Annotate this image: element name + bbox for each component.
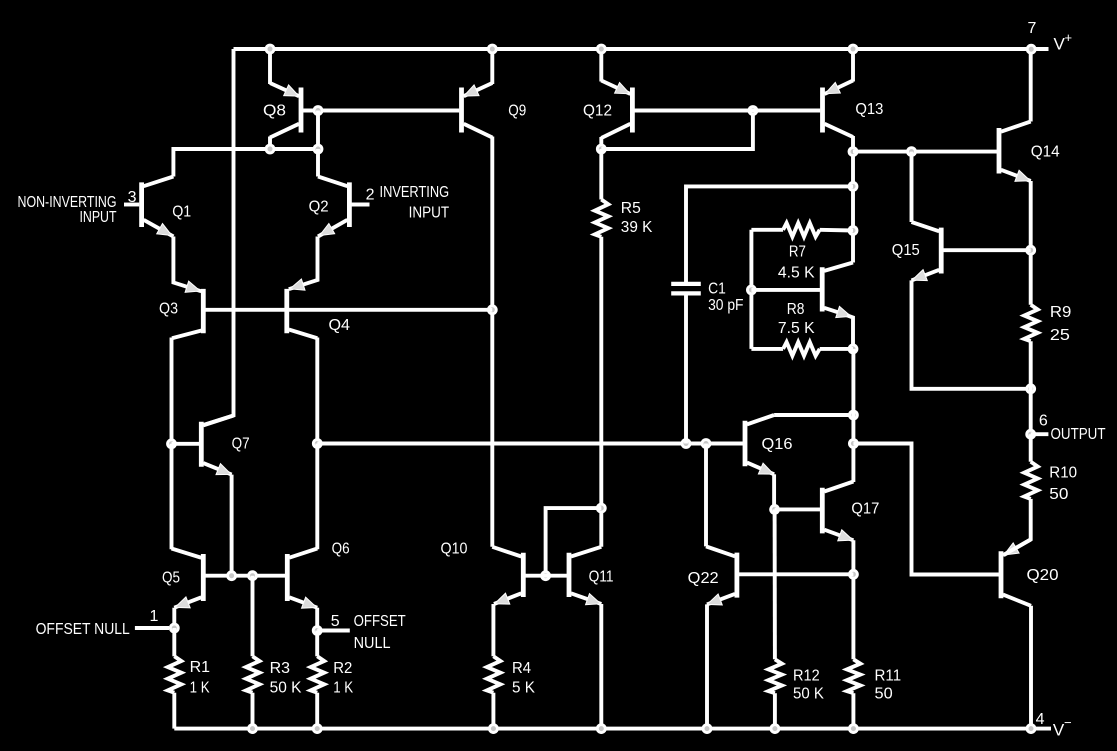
transistor Q17 (NPN) [820, 488, 825, 534]
resistor R2 [311, 656, 325, 692]
wire Q1 emitter to Q3 emitter [173, 237, 201, 292]
svg-text:50: 50 [875, 686, 893, 703]
svg-text:30 pF: 30 pF [708, 297, 744, 314]
wire Q20 base from bus (x853 y443.5 jog) [853, 444, 999, 575]
node Q3/Q5 collector and Q7 base [166, 438, 177, 449]
svg-text:6: 6 [1039, 413, 1048, 430]
wire R3 top lead [251, 576, 255, 657]
svg-text:Q15: Q15 [892, 242, 920, 259]
svg-text:R9: R9 [1050, 304, 1072, 321]
svg-text:R5: R5 [621, 200, 641, 217]
wire Q11 emitter to V- rail [599, 604, 603, 729]
svg-text:OUTPUT: OUTPUT [1051, 426, 1106, 443]
svg-text:4: 4 [1036, 711, 1045, 728]
wire Q12 collector-base tie jog [601, 111, 753, 150]
node base tie to collector bus (x318) [313, 105, 324, 116]
node Q11 emitter at V- rail [596, 723, 607, 734]
node Q9 emitter at V+ rail [487, 44, 498, 55]
pin 3 lead (non-inverting input) [124, 203, 139, 207]
svg-text:Q7: Q7 [232, 435, 250, 452]
wire Q5 collector up to Q3 collector node [170, 444, 174, 550]
wire Q13 collector bus lower section [851, 349, 855, 482]
wire Q9 collector down to Q3/Q4 base node and Q10 [490, 137, 494, 547]
wire Q2 emitter to Q4 emitter [289, 237, 318, 290]
wire R5 to Q11 collector [599, 237, 603, 547]
resistor R8 [751, 347, 783, 351]
resistor R4 [487, 656, 501, 692]
node Q12/Q13 base tie [748, 105, 759, 116]
wire Q22 base line [739, 572, 854, 576]
node Q10/Q11 base line junction [540, 570, 551, 581]
svg-text:R10: R10 [1049, 465, 1077, 482]
node R12 at V- rail [770, 723, 781, 734]
transistor Q16 (NPN, Darlington driver) [743, 421, 748, 467]
svg-text:Q17: Q17 [851, 501, 879, 518]
svg-text:R12: R12 [793, 667, 820, 684]
svg-text:R8: R8 [787, 301, 805, 318]
wire Q5/Q6 base line [205, 574, 285, 578]
wire Q17 base lead [775, 507, 821, 511]
svg-text:Q8: Q8 [263, 102, 286, 119]
resistor R9 [1024, 305, 1038, 341]
node Q12 collector / R5 / base-tie junction [596, 144, 607, 155]
wire output node to R10 [1029, 434, 1033, 462]
svg-text:Q3: Q3 [159, 301, 178, 318]
node R2 at V- rail [312, 723, 323, 734]
node Q15 base tap [1025, 245, 1036, 256]
transistor Q11 (NPN) [567, 553, 572, 597]
svg-text:7.5 K: 7.5 K [778, 320, 815, 337]
resistor R1 [168, 656, 182, 692]
svg-text:OFFSET NULL: OFFSET NULL [36, 621, 130, 638]
node Q2 collector junction [313, 144, 324, 155]
node Q4/Q6 collector at signal bus [312, 438, 323, 449]
wire R4 to V- rail [491, 693, 495, 729]
wire Q14 collector to V+ pin 7 [1029, 49, 1033, 122]
svg-text:5: 5 [331, 613, 340, 630]
node R7 right end [848, 225, 859, 236]
wire Q13 collector to Q14 base [853, 150, 997, 154]
node R8 right end [848, 344, 859, 355]
wire VBE multiplier emitter to R8 node [847, 315, 853, 349]
transistor Q20 (PNP output low-side) [999, 551, 1004, 598]
svg-text:Q22: Q22 [688, 570, 719, 587]
transistor Q8 (PNP, current mirror master) [299, 88, 304, 133]
node Q11 collector-base tie [596, 503, 607, 514]
wire Q8 emitter to V+ rail [268, 49, 272, 84]
svg-text:Q20: Q20 [1027, 567, 1059, 584]
wire Q15 emitter to output node [912, 280, 1031, 388]
node offset null pin 5 junction [312, 625, 323, 636]
transistor Q15 (NPN current limit, mirrored) [939, 228, 944, 274]
svg-text:R7: R7 [789, 244, 806, 261]
wire R1 to V- rail [172, 693, 176, 729]
resistor R12 [768, 659, 782, 693]
wire Q4/Q6 collector bus to Q16 base [317, 442, 743, 446]
svg-text:Q5: Q5 [162, 570, 180, 587]
wire Q11 base tie jog [546, 508, 602, 576]
wire R5 top lead [599, 149, 603, 200]
node R3 tap at base line [247, 570, 258, 581]
node pin 7 (V+) [1026, 44, 1037, 55]
transistor Q3 (PNP, mirrored) [201, 289, 206, 333]
svg-text:+: + [1065, 30, 1073, 45]
pin 5 lead (offset null) [317, 629, 350, 633]
wire Q22 emitter to V- rail [705, 604, 709, 728]
svg-text:3: 3 [128, 189, 137, 206]
wire R12 top lead [773, 509, 777, 659]
svg-text:Q12: Q12 [583, 102, 612, 119]
wire Q9 emitter to V+ rail [490, 49, 494, 84]
wire R9 to output node [1029, 341, 1033, 434]
node C1 bottom at bus [681, 438, 692, 449]
wire offset null 1 node to R1 [172, 628, 176, 656]
wire VBE multiplier base lead [751, 288, 820, 292]
wire Q2 collector drop [316, 149, 320, 177]
svg-text:C1: C1 [708, 281, 726, 298]
svg-text:Q11: Q11 [589, 568, 614, 585]
transistor VBE multiplier (unlabeled NPN between R7 and R8) [820, 267, 825, 311]
svg-text:R4: R4 [512, 660, 531, 677]
svg-text:Q14: Q14 [1031, 143, 1060, 160]
wire Q10 emitter to R4 [491, 604, 495, 656]
wire Q8 collector down to input-collector bus [268, 137, 272, 150]
node C1 top tap [848, 181, 859, 192]
node Q22 base at Q17 emitter line [848, 569, 859, 580]
wire Q22 collector up to signal bus [704, 444, 708, 547]
wire Q13 collector bus (x853 vertical) [851, 136, 855, 263]
svg-text:INPUT: INPUT [80, 209, 117, 226]
svg-text:Q2: Q2 [309, 199, 329, 216]
wire R12 to V- rail [773, 693, 777, 728]
svg-text:NULL: NULL [354, 635, 391, 652]
wire R3 to V- rail [251, 693, 255, 729]
wire Q14 emitter to R9 [1029, 181, 1033, 305]
wire Q12 collector to R5 node [599, 137, 603, 149]
node Q3/Q4 base line meets Q9 collector [487, 304, 498, 315]
svg-text:INPUT: INPUT [409, 204, 450, 221]
svg-text:5 K: 5 K [512, 679, 535, 696]
transistor Q12 (PNP, diode-connected) [630, 88, 635, 133]
pin 6 lead (output) [1031, 432, 1049, 436]
svg-text:Q6: Q6 [332, 540, 350, 557]
wire R10 to Q20 emitter [1004, 499, 1031, 555]
wire Q15 base to R9 top node [943, 248, 1030, 252]
resistor R11 [847, 659, 861, 693]
transistor Q13 (PNP) [820, 88, 825, 133]
svg-text:R3: R3 [270, 660, 291, 677]
pin 2 lead (inverting input) [351, 203, 369, 207]
node Q8 collector junction [265, 144, 276, 155]
wire offset null 5 node to R2 [315, 631, 319, 657]
wire V- rail (pin 4 supply, bottom) [174, 727, 1051, 731]
node pin 6 output junction [1025, 429, 1036, 440]
node Q20 base tap at bus [848, 438, 859, 449]
svg-text:OFFSET: OFFSET [354, 613, 406, 630]
transistor Q6 (NPN) [285, 554, 290, 601]
svg-text:Q1: Q1 [172, 203, 191, 220]
svg-text:50 K: 50 K [270, 679, 302, 696]
node offset null pin 1 junction [169, 623, 180, 634]
capacitor C1 30 pF [671, 282, 701, 286]
svg-text:Q13: Q13 [855, 101, 883, 118]
wire Q4 collector down to Q6 collector node [315, 338, 319, 444]
wire R11 to V- rail [851, 693, 855, 728]
wire C1 top plate to Q13 collector bus [686, 186, 853, 284]
resistor R7 [751, 228, 783, 232]
svg-text:Q10: Q10 [441, 540, 468, 557]
pin 1 lead (offset null) [135, 626, 169, 630]
node VBE multiplier base tap [746, 285, 757, 296]
wire Q20 collector to V- pin 4 [1029, 606, 1033, 729]
svg-text:R2: R2 [333, 660, 352, 677]
node R11 at V- rail [848, 723, 859, 734]
transistor Q1 (NPN input) [139, 182, 144, 227]
svg-text:1: 1 [150, 608, 159, 625]
transistor Q14 (NPN output high-side) [997, 128, 1002, 174]
wire Q15 collector up to Q14 base line [910, 152, 914, 222]
transistor Q7 (NPN, mirror buffer) [199, 422, 204, 467]
wire Q8-Q9 base line [303, 109, 459, 113]
resistor R10 [1024, 462, 1038, 499]
resistor R5 [595, 200, 609, 237]
wire Q12-Q13 base line [634, 109, 820, 113]
wire Q7 emitter to Q5/Q6 base line [230, 475, 234, 576]
wire Q13 emitter to V+ rail [851, 49, 855, 82]
node R3 at V- rail [247, 723, 258, 734]
svg-text:4.5 K: 4.5 K [778, 264, 815, 281]
svg-text:Q9: Q9 [508, 102, 526, 119]
wire R2 to V- rail [315, 693, 319, 729]
node Q17 base / R12 junction [769, 504, 780, 515]
node Q12 emitter at V+ rail [596, 44, 607, 55]
wire Q6 emitter to offset null 5 node [315, 608, 319, 631]
wire Q3/Q4 base line to Q9 collector [205, 308, 492, 312]
node Q22 collector at bus [701, 438, 712, 449]
wire Q16 emitter to Q17 base node [772, 474, 776, 509]
svg-text:2: 2 [366, 187, 375, 204]
wire Q17 emitter to Q22 base node and R11 [851, 540, 855, 659]
node Q14 base line tap [848, 146, 859, 157]
svg-text:50: 50 [1049, 486, 1068, 503]
node Q16 collector at bus [848, 410, 859, 421]
wire Q6 collector up to signal bus [315, 444, 319, 550]
svg-text:Q16: Q16 [762, 436, 793, 453]
svg-text:Q4: Q4 [329, 317, 351, 334]
svg-text:39 K: 39 K [621, 219, 653, 236]
svg-text:7: 7 [1028, 20, 1037, 37]
node Q15 collector at Q14 base line [906, 146, 917, 157]
transistor Q2 (NPN input, mirrored) [347, 182, 352, 227]
wire C1 bottom plate to Q16 base bus [684, 293, 688, 443]
wire Q3 collector down to Q5 collector / Q7 base node [170, 338, 174, 444]
transistor Q4 (PNP) [284, 289, 289, 333]
transistor Q5 (NPN, mirrored) [201, 554, 206, 601]
svg-text:R1: R1 [190, 659, 211, 676]
wire Q5 emitter to offset null 1 node [172, 608, 176, 628]
transistor Q9 (PNP, current mirror output) [459, 88, 464, 133]
wire Q10/Q11 base line [525, 574, 567, 578]
svg-text:1 K: 1 K [190, 679, 210, 696]
svg-text:1 K: 1 K [333, 679, 353, 696]
resistor R3 [246, 656, 260, 692]
svg-text:−: − [1064, 715, 1072, 730]
wire Q16 collector to Q13 collector bus [774, 413, 854, 417]
svg-text:R11: R11 [875, 667, 902, 684]
svg-text:50 K: 50 K [793, 686, 824, 703]
node Q15 emitter at output branch [1025, 383, 1036, 394]
wire Q12 emitter to V+ rail [599, 49, 603, 82]
node Q22 emitter at V- rail [702, 723, 713, 734]
node Q8 emitter at V+ rail [265, 44, 276, 55]
node R4 at V- rail [488, 723, 499, 734]
wire R7/R8 left vertical (VBE multiplier base node) [749, 230, 753, 349]
wire base tie vertical (x318) [316, 111, 320, 150]
wire V+ drop to Q7 collector (left vertical) [203, 49, 233, 425]
node Q13 emitter at V+ rail [848, 44, 859, 55]
transistor Q10 (NPN, mirrored) [521, 553, 526, 597]
wire Q7 base lead [172, 442, 200, 446]
transistor Q22 (NPN, mirrored) [735, 553, 740, 598]
svg-text:INVERTING: INVERTING [380, 184, 450, 201]
node Q7 emitter at base line [226, 570, 237, 581]
wire Q1/Q2/Q8 collector bus (y149) [173, 149, 318, 177]
node pin 4 (V-) [1026, 723, 1037, 734]
wire V+ rail (pin 7 supply, top) [234, 47, 1049, 51]
svg-text:25: 25 [1050, 327, 1070, 344]
